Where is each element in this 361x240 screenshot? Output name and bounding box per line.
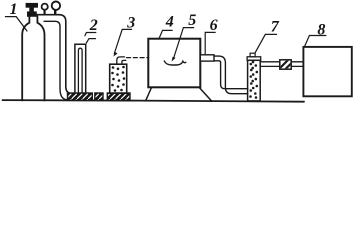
label 4 — [165, 14, 174, 31]
pipe 7 to filter lower wall — [260, 65, 280, 67]
leader line 5 — [174, 28, 194, 59]
pipe filter to box 8 lower wall — [291, 65, 303, 67]
leader 3 arrowhead — [113, 52, 117, 57]
gas cylinder 1 body — [22, 16, 44, 100]
vessel 3 neck outer wall — [117, 57, 125, 64]
flowmeter 2 side nub — [86, 39, 95, 43]
pipe 6 upper wall — [214, 56, 248, 94]
svg-text:4: 4 — [165, 14, 174, 31]
cylinder valve stem — [30, 7, 34, 12]
pipe 6 lower wall — [214, 61, 248, 89]
furnace left leg — [146, 88, 152, 101]
gauge G1 stem — [44, 10, 46, 14]
label 7 — [271, 19, 280, 36]
flowmeter 2 inner tube — [78, 48, 82, 93]
label 1 — [10, 1, 18, 18]
label 5 — [188, 12, 196, 29]
gauge G1 — [42, 4, 48, 10]
furnace 4 chamber — [148, 39, 200, 88]
pipe filter to box 8 upper wall — [291, 61, 303, 63]
hatched base block B — [95, 93, 103, 100]
leader line 8 — [305, 36, 326, 47]
regulator manifold outlet tube inner wall — [44, 21, 68, 99]
gauge G2 stem — [54, 10, 56, 15]
regulator manifold outlet tube outer wall — [36, 15, 72, 94]
ground line — [3, 100, 305, 102]
drying vessel 3 — [110, 64, 127, 93]
leader line 4 — [159, 30, 172, 38]
cylinder valve body — [27, 12, 36, 17]
leader line 3 — [114, 29, 131, 53]
absorber 7 granule dots — [249, 61, 258, 99]
filter square — [280, 60, 291, 69]
leader 5 arrowhead — [172, 57, 176, 62]
furnace right leg — [199, 88, 212, 102]
boat 5 inside furnace — [164, 61, 186, 65]
svg-text:1: 1 — [10, 1, 18, 18]
furnace outlet stub — [200, 55, 214, 61]
filter diagonal hatch — [276, 58, 299, 76]
pipe 7 to filter upper wall — [260, 61, 280, 63]
label 2 — [89, 17, 98, 34]
dashed gas line into furnace — [127, 57, 149, 59]
hatched base block A — [68, 93, 93, 100]
label 6 — [210, 17, 218, 34]
vessel 3 granule dots — [111, 66, 125, 92]
instrument box 8 — [303, 47, 351, 96]
gauge G2 — [52, 2, 60, 10]
label 8 — [317, 22, 325, 39]
cylinder T-handle — [26, 3, 38, 7]
hatched base block C — [107, 93, 130, 100]
leader line 7 — [255, 34, 277, 53]
flowmeter 2 outer tube — [75, 44, 86, 93]
absorber 7 body — [248, 60, 261, 101]
vessel 3 neck inner wall — [122, 60, 126, 64]
leader line 6 — [205, 32, 215, 53]
label 3 — [126, 14, 135, 31]
svg-text:6: 6 — [210, 17, 218, 34]
leader line 2 — [85, 33, 96, 36]
leader line 1 — [5, 17, 27, 31]
svg-text:2: 2 — [89, 17, 98, 34]
absorber 7 top plug — [250, 53, 255, 57]
absorber 7 cap — [247, 57, 261, 61]
svg-text:5: 5 — [188, 12, 196, 29]
svg-text:7: 7 — [271, 19, 280, 36]
